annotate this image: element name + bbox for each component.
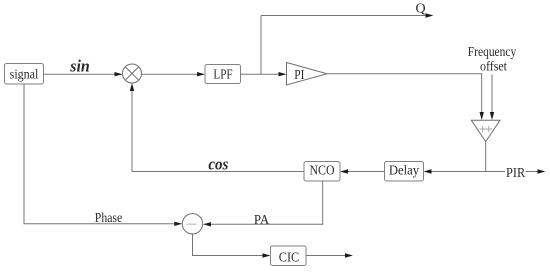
wire PI output to summer — [327, 74, 482, 119]
wire Q output — [261, 15, 432, 17]
svg-text:cos: cos — [208, 155, 228, 174]
svg-text:PIR: PIR — [506, 166, 526, 181]
svg-text:Q: Q — [416, 2, 426, 17]
node Q tap junction — [260, 16, 262, 75]
wire Delay to NCO — [342, 171, 385, 173]
wire frequency offset to summer — [491, 75, 493, 119]
svg-text:LPF: LPF — [213, 68, 232, 83]
svg-text:offset: offset — [480, 60, 507, 75]
svg-text:PA: PA — [254, 213, 270, 228]
LPF box — [205, 65, 241, 84]
wire PIR output — [526, 171, 545, 173]
Delay box — [385, 162, 424, 182]
svg-text:CIC: CIC — [279, 250, 300, 265]
svg-text:signal: signal — [10, 68, 39, 83]
wire NCO cos feedback to multiplier — [132, 85, 304, 172]
svg-text:sin: sin — [69, 57, 89, 76]
svg-text:Frequency: Frequency — [468, 45, 516, 60]
svg-text:PI: PI — [294, 68, 304, 83]
wire CIC output — [306, 255, 352, 257]
wire subtractor to CIC — [193, 234, 270, 256]
wire junction to Delay — [425, 171, 486, 173]
subtractor U3 — [182, 214, 202, 234]
svg-text:Phase: Phase — [95, 211, 122, 226]
summer U2 — [471, 120, 500, 141]
wire junction to PIR — [486, 171, 505, 173]
wire NCO PA to subtractor — [205, 181, 323, 224]
NCO box — [304, 162, 340, 182]
minus mark — [187, 223, 197, 225]
signal box — [5, 64, 44, 85]
op-amp PI — [287, 63, 328, 86]
multiplier X1 — [123, 64, 142, 83]
wire summer to PIR bus — [485, 142, 487, 172]
svg-text:NCO: NCO — [309, 164, 334, 179]
CIC box — [271, 246, 307, 266]
wire signal Phase to subtractor — [24, 84, 181, 224]
svg-text:Delay: Delay — [389, 163, 419, 178]
wire LPF to PI — [241, 73, 286, 75]
wire multiplier to LPF — [142, 73, 204, 75]
wire signal to multiplier — [44, 73, 122, 75]
++ marks — [480, 128, 493, 130]
